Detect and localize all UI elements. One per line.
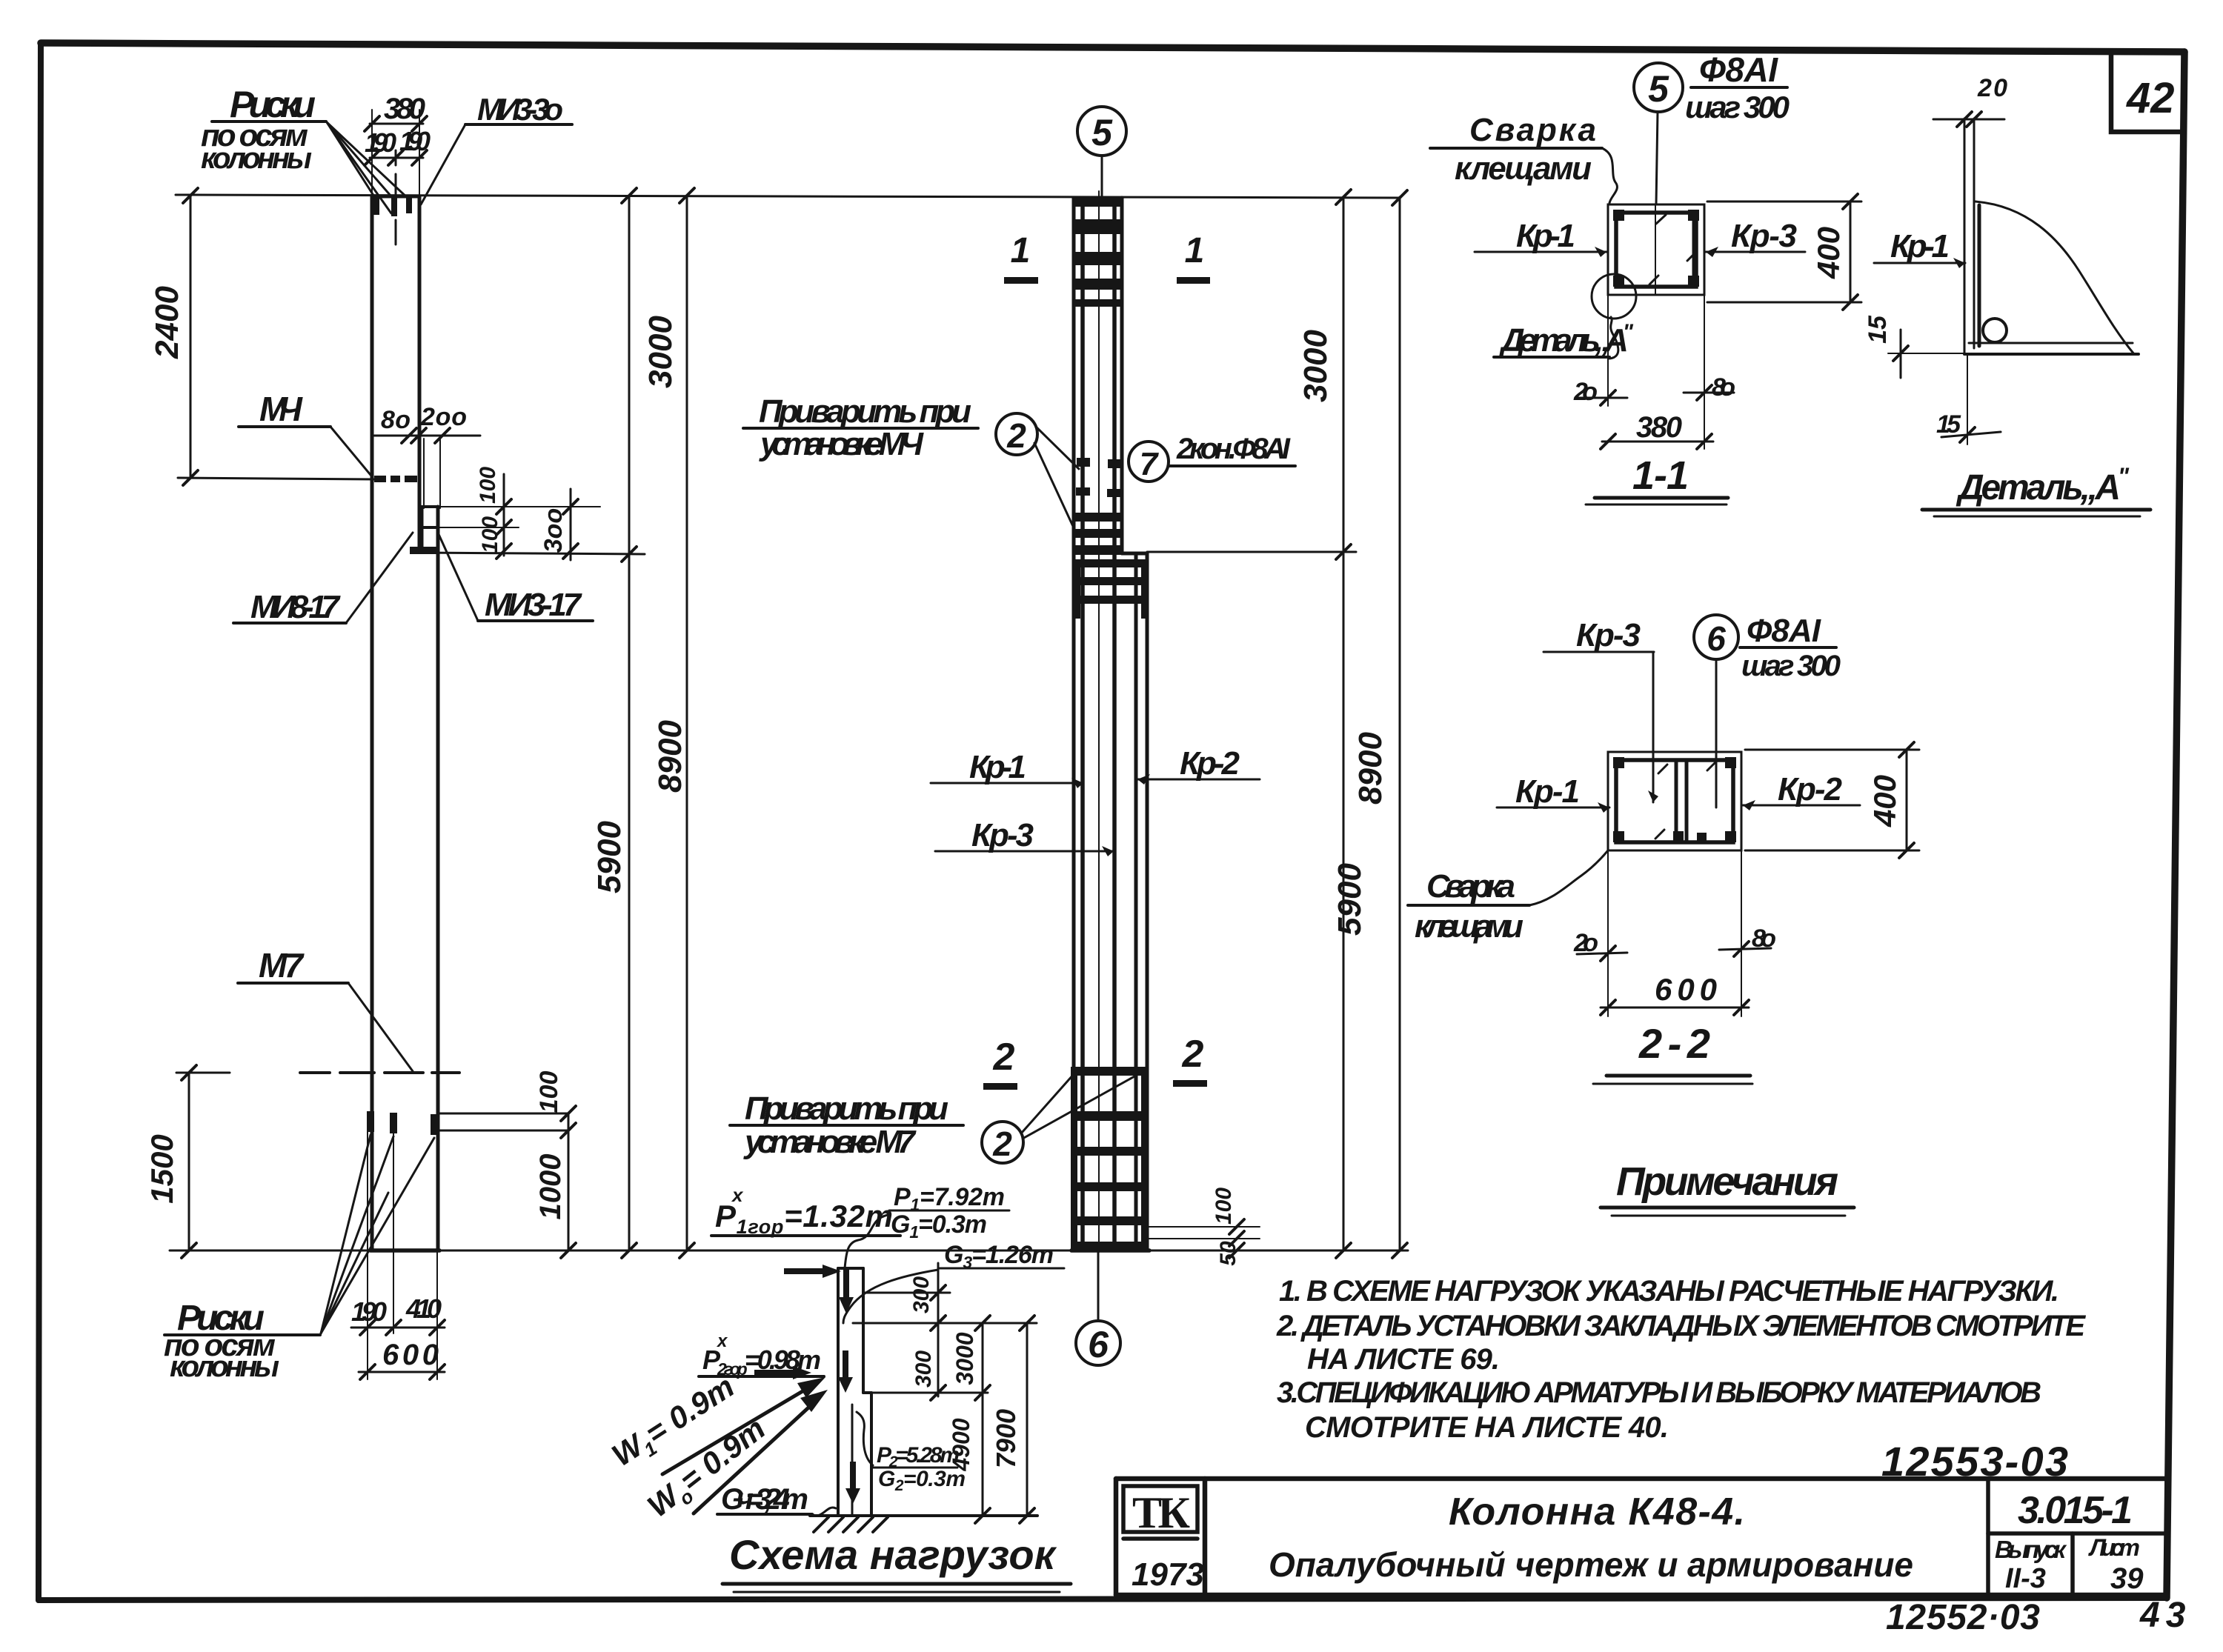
middle bar pair <box>1675 760 1678 842</box>
svg-text:Колонна К48-4.: Колонна К48-4. <box>1449 1491 1745 1533</box>
svg-text:1000: 1000 <box>534 1154 567 1220</box>
NOTES <box>1276 1159 2086 1444</box>
svg-text:12552·03: 12552·03 <box>1886 1598 2040 1637</box>
svg-text:400: 400 <box>1867 775 1902 827</box>
svg-text:Деталь„А": Деталь„А" <box>1955 463 2130 507</box>
svg-text:МИ3-3о: МИ3-3о <box>477 92 563 127</box>
svg-text:7900: 7900 <box>991 1409 1021 1468</box>
svg-text:100: 100 <box>535 1071 563 1113</box>
column bottom edge <box>370 1248 439 1253</box>
SECTION-1-1 <box>1430 50 1861 504</box>
svg-text:Ф8АІ: Ф8АІ <box>1699 50 1778 89</box>
weld bar circle <box>1983 319 2007 342</box>
svg-text:Приварить при: Приварить при <box>759 393 971 430</box>
svg-text:400: 400 <box>1811 227 1846 279</box>
svg-text:3.015-1: 3.015-1 <box>2018 1489 2133 1532</box>
svg-text:М7: М7 <box>259 946 305 985</box>
svg-text:3оо: 3оо <box>539 508 568 553</box>
circle 2 lower <box>982 1122 1023 1163</box>
svg-text:Gч=3,24т: Gч=3,24т <box>721 1483 808 1516</box>
circle 5 callout <box>1077 107 1126 156</box>
outer concrete rect <box>1608 752 1741 850</box>
lower extension lines and dims <box>1607 295 1609 406</box>
border frame <box>41 43 2184 52</box>
svg-text:ТК: ТК <box>1132 1488 1190 1537</box>
circle 6 above <box>1694 615 1738 659</box>
svg-text:50: 50 <box>1216 1241 1240 1266</box>
svg-text:шаг 300: шаг 300 <box>1685 90 1790 124</box>
wind arrow Wo diagonal <box>694 1400 817 1513</box>
svg-text:5: 5 <box>1648 68 1669 110</box>
DETAIL-A <box>1864 74 2150 516</box>
svg-text:II-3: II-3 <box>2005 1563 2046 1594</box>
vertical load arrow P1 <box>839 1269 854 1313</box>
svg-text:4900: 4900 <box>948 1418 974 1471</box>
TITLE-BLOCK <box>1116 1438 2191 1637</box>
svg-text:6: 6 <box>1088 1324 1109 1365</box>
МЧ embedded plate mark <box>374 476 386 482</box>
svg-text:x: x <box>716 1331 728 1351</box>
svg-text:410: 410 <box>405 1293 442 1324</box>
circle 7 with 2кон Ф8АI <box>1129 442 1169 482</box>
svg-text:380: 380 <box>1636 411 1682 444</box>
right cells <box>1986 1479 1990 1595</box>
console right side small dims 100 100 300 <box>438 506 600 507</box>
svg-text:8о: 8о <box>381 406 411 434</box>
page number box 42 <box>2111 52 2184 132</box>
top long dimension line <box>176 195 1400 198</box>
MIDDLE-REINFORCEMENT-ELEVATION <box>730 107 1407 1365</box>
svg-text:Кр-1: Кр-1 <box>969 749 1026 785</box>
svg-text:2. ДЕТАЛЬ УСТАНОВКИ ЗАКЛАДНЫ: 2. ДЕТАЛЬ УСТАНОВКИ ЗАКЛАДНЫХ ЭЛЕМЕНТОВ … <box>1276 1310 2086 1342</box>
svg-text:колонны: колонны <box>170 1350 279 1383</box>
svg-text:8о: 8о <box>1712 373 1735 402</box>
М7 risk marks on column bottom part <box>367 1111 374 1132</box>
vertical load arrow G2 <box>845 1462 860 1504</box>
long bottom dimension line <box>170 1250 1408 1252</box>
svg-text:Приварить при: Приварить при <box>745 1090 948 1127</box>
LOAD-SCHEME <box>605 1183 1071 1592</box>
svg-text:15: 15 <box>1864 315 1892 344</box>
axis dashed center line top <box>395 150 397 244</box>
svg-text:Кр-2: Кр-2 <box>1180 745 1240 782</box>
svg-text:42: 42 <box>2126 74 2175 122</box>
center axis <box>1655 204 1656 295</box>
svg-text:39: 39 <box>2110 1562 2144 1595</box>
scheme horizontal reference lines <box>863 1292 950 1294</box>
svg-text:100: 100 <box>476 467 500 504</box>
bottom plate lines and dims 100 1000 <box>438 1113 568 1115</box>
leader fan to М7 risk marks <box>321 1135 370 1333</box>
svg-text:Кр-1: Кр-1 <box>1890 228 1950 264</box>
tie bands below step <box>1074 559 1147 567</box>
dim lines 3000/5900 and 8900 right of left column <box>628 196 631 1250</box>
dim 400 right <box>1707 201 1861 203</box>
svg-text:Сварка: Сварка <box>1426 868 1515 905</box>
svg-text:Выпуск: Выпуск <box>1995 1536 2067 1563</box>
svg-text:Кр-3: Кр-3 <box>1731 218 1797 254</box>
svg-text:НА ЛИСТЕ 69.: НА ЛИСТЕ 69. <box>1307 1343 1500 1376</box>
vertical embedded plate <box>1964 119 1966 354</box>
tie bands top zone <box>1074 196 1122 207</box>
svg-text:x: x <box>731 1184 744 1206</box>
wind arrow W1 diagonal <box>662 1384 815 1474</box>
svg-text:Сварка: Сварка <box>1469 112 1596 148</box>
column K48 formwork outline left edge <box>370 196 374 1250</box>
svg-text:МИ3-17: МИ3-17 <box>485 587 583 623</box>
bottom plate <box>1969 342 2133 344</box>
svg-text:2: 2 <box>992 1125 1012 1163</box>
svg-text:Кр-3: Кр-3 <box>971 817 1034 853</box>
svg-text:МИ8-17: МИ8-17 <box>250 589 342 625</box>
svg-text:МЧ: МЧ <box>259 390 303 428</box>
LEFT-ELEVATION <box>144 84 1408 1383</box>
step level 3000 line <box>419 553 645 554</box>
svg-text:Деталь„А": Деталь„А" <box>1498 320 1634 359</box>
title block outline <box>1116 1476 2167 1482</box>
column axis line <box>1098 191 1100 1252</box>
svg-text:Кр-1: Кр-1 <box>1515 773 1580 810</box>
svg-text:5900: 5900 <box>591 821 628 893</box>
svg-text:300: 300 <box>911 1350 936 1388</box>
console МИ3-17 bracket outline <box>419 505 438 508</box>
svg-text:клещами: клещами <box>1455 150 1592 187</box>
М7 dashed level <box>300 1071 459 1074</box>
svg-text:2-2: 2-2 <box>1638 1020 1710 1067</box>
column top edge <box>372 195 419 199</box>
svg-text:1500: 1500 <box>144 1134 179 1203</box>
svg-text:5: 5 <box>1091 112 1113 153</box>
svg-text:8900: 8900 <box>1352 732 1389 805</box>
concrete break curve <box>1976 201 2134 354</box>
svg-text:клещами: клещами <box>1415 908 1523 945</box>
scheme column outline <box>837 1268 840 1516</box>
svg-text:шаг 300: шаг 300 <box>1741 650 1841 682</box>
svg-text:5900: 5900 <box>1332 863 1368 936</box>
svg-text:8900: 8900 <box>652 720 688 793</box>
circle 6 callout <box>1076 1321 1120 1365</box>
TK logo cell <box>1123 1486 1197 1532</box>
outer concrete square <box>1608 204 1704 295</box>
column right edge upper 380 part <box>418 196 422 551</box>
svg-text:1-1: 1-1 <box>1632 453 1689 498</box>
tie marks mid zone <box>1077 458 1090 467</box>
inner mesh frame <box>1616 213 1696 287</box>
horizontal arrow P2hor <box>754 1366 811 1379</box>
risk marks at column top <box>373 197 379 215</box>
svg-text:2400: 2400 <box>149 286 185 359</box>
svg-text:1. В СХЕМЕ НАГРУЗОК УКАЗАНЫ: 1. В СХЕМЕ НАГРУЗОК УКАЗАНЫ РАСЧЕТНЫЕ НА… <box>1279 1275 2059 1308</box>
svg-text:100: 100 <box>478 516 502 553</box>
svg-text:600: 600 <box>1655 972 1717 1007</box>
vertical load arrow G1 <box>838 1350 853 1393</box>
svg-text:Кр-1: Кр-1 <box>1516 218 1575 254</box>
svg-text:12553-03: 12553-03 <box>1881 1438 2068 1485</box>
svg-text:190: 190 <box>365 127 396 158</box>
leader fan from Риски to top risk marks <box>327 122 376 200</box>
Деталь А callout circle <box>1592 274 1636 319</box>
dim 15 bottom <box>1967 354 1968 444</box>
svg-text:3000: 3000 <box>951 1332 978 1385</box>
svg-text:установке М7: установке М7 <box>743 1124 917 1160</box>
svg-text:2о: 2о <box>1573 378 1598 406</box>
svg-text:1: 1 <box>1185 231 1205 270</box>
svg-text:G1=0.3т: G1=0.3т <box>891 1210 987 1242</box>
dim line 2400 <box>190 196 192 478</box>
svg-text:Ф8АІ: Ф8АІ <box>1747 613 1821 649</box>
svg-text:3000: 3000 <box>1297 330 1334 402</box>
svg-text:300: 300 <box>909 1276 934 1313</box>
dim 1500 left bottom <box>176 1072 230 1074</box>
scheme dim 300 300 <box>937 1263 940 1396</box>
scheme dim 7900 <box>1026 1323 1029 1516</box>
svg-text:100: 100 <box>1212 1188 1236 1225</box>
svg-text:2оо: 2оо <box>420 403 467 431</box>
svg-text:установке МЧ: установке МЧ <box>759 426 924 462</box>
svg-text:Опалубочный чертеж и армиро: Опалубочный чертеж и армирование <box>1269 1545 1913 1584</box>
scheme dim 3000 4900 <box>982 1323 984 1516</box>
horizontal arrow P1hor <box>784 1265 841 1278</box>
inner diagonal ticks <box>1658 765 1667 773</box>
svg-text:1: 1 <box>1011 231 1031 270</box>
bar dots <box>1613 757 1624 768</box>
svg-text:Кр-2: Кр-2 <box>1778 771 1843 807</box>
circle 5 above <box>1634 63 1683 112</box>
svg-text:20: 20 <box>1977 74 2007 102</box>
inner mesh frame <box>1616 760 1733 842</box>
svg-text:3.СПЕЦИФИКАЦИЮ АРМАТУРЫ И В: 3.СПЕЦИФИКАЦИЮ АРМАТУРЫ И ВЫБОРКУ МАТЕРИ… <box>1277 1376 2041 1409</box>
svg-text:колонны: колонны <box>201 142 312 175</box>
Кр-1 mesh bar vertical <box>1978 205 1981 346</box>
bottom dims 190 410 600 <box>367 1132 368 1379</box>
svg-text:3000: 3000 <box>642 316 679 388</box>
svg-text:Схема нагрузок: Схема нагрузок <box>729 1531 1057 1578</box>
column edges <box>1072 198 1076 1250</box>
leader squiggle to column top <box>845 1215 888 1268</box>
svg-text:2кон.Ф8АІ: 2кон.Ф8АІ <box>1176 433 1291 465</box>
SECTION-2-2 <box>1408 613 1919 1084</box>
ground line and hatch <box>810 1514 1037 1517</box>
inner tie diagonal ticks <box>1656 215 1666 224</box>
dim 400 right <box>1745 749 1919 751</box>
svg-text:2: 2 <box>1006 416 1026 455</box>
svg-text:2: 2 <box>993 1036 1015 1079</box>
bottom right small dims 100 50 <box>1147 1226 1260 1228</box>
svg-text:15: 15 <box>1936 410 1961 439</box>
tie bands bottom zone <box>1074 1067 1146 1076</box>
svg-text:190: 190 <box>351 1296 387 1327</box>
svg-text:600: 600 <box>382 1339 439 1371</box>
longitudinal bars <box>1080 200 1085 1249</box>
lower extension lines and dims <box>1607 850 1609 1016</box>
circle 2 upper <box>996 413 1037 455</box>
middle dim lines 3000/5900 and 8900 <box>1343 197 1345 1250</box>
svg-text:43: 43 <box>2139 1596 2191 1635</box>
svg-text:Лист: Лист <box>2088 1534 2140 1561</box>
svg-text:Примечания: Примечания <box>1616 1159 1838 1204</box>
svg-text:Кр-3: Кр-3 <box>1576 617 1641 653</box>
svg-text:СМОТРИТЕ НА ЛИСТЕ 40.: СМОТРИТЕ НА ЛИСТЕ 40. <box>1305 1411 1669 1444</box>
svg-text:2: 2 <box>1182 1033 1204 1076</box>
svg-text:6: 6 <box>1707 619 1726 658</box>
svg-text:1973: 1973 <box>1132 1556 1204 1593</box>
corner bar dots <box>1613 210 1624 221</box>
column right edge lower 600 part <box>436 551 440 1250</box>
svg-text:7: 7 <box>1140 446 1160 482</box>
